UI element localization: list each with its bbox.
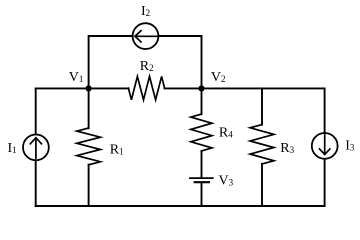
- svg-text:I2: I2: [141, 4, 150, 19]
- svg-text:R1: R1: [110, 142, 124, 157]
- svg-text:V3: V3: [219, 174, 234, 189]
- svg-text:V1: V1: [69, 70, 84, 85]
- svg-text:I1: I1: [8, 141, 17, 156]
- svg-text:V2: V2: [211, 70, 226, 85]
- svg-text:R3: R3: [280, 141, 294, 156]
- svg-text:R2: R2: [140, 59, 154, 74]
- svg-text:I3: I3: [345, 139, 355, 154]
- svg-text:R4: R4: [219, 125, 233, 140]
